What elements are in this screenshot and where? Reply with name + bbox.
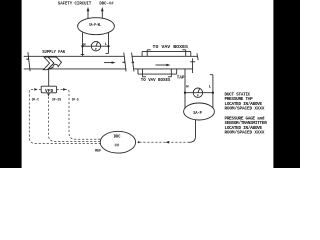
duct break line right end: [197, 53, 198, 60]
duct branch to VAV boxes (bottom): [138, 69, 177, 77]
airflow arrow 1: [104, 61, 116, 63]
wire: SA-P low reference line: [210, 75, 213, 109]
svg-text:SA-P-HL: SA-P-HL: [89, 24, 101, 28]
gauge P (SA-P-HL): [91, 42, 100, 52]
svg-text:ROOM/SPACED XXXX: ROOM/SPACED XXXX: [225, 106, 265, 111]
wire SF-C (DDC to VFD command): [29, 88, 101, 143]
wire SF-SS (start/stop): [47, 93, 100, 141]
svg-text:ROOM/SPACED XXXX: ROOM/SPACED XXXX: [225, 131, 265, 136]
svg-text:SUPPLY FAN: SUPPLY FAN: [42, 50, 65, 55]
svg-text:SA-P: SA-P: [193, 112, 202, 116]
svg-text:SF-C: SF-C: [32, 99, 40, 103]
junction dot H (SA-P): [184, 92, 186, 94]
static pressure tap probe: [190, 58, 195, 73]
svg-text:REF: REF: [95, 149, 102, 153]
svg-text:SF-S: SF-S: [72, 99, 79, 103]
wire: SA-P sensing connector: [185, 92, 213, 94]
wire: arrow from SA-P-HL to DDC: [101, 7, 104, 18]
wire: arrow from SA-P-HL to safety circuit: [87, 7, 90, 19]
svg-text:P: P: [95, 48, 97, 51]
wire: SA-P-HL sensing connector: [83, 45, 109, 47]
gauge P (SA-P): [193, 88, 202, 98]
duct: supply duct bottom line: [24, 68, 193, 70]
svg-text:SF-SS: SF-SS: [52, 99, 62, 103]
wire: SA-P signal to DDC: [138, 120, 196, 144]
VFD drive: [41, 86, 56, 94]
svg-text:DDC: DDC: [114, 136, 121, 140]
duct branch to VAV boxes (top): [142, 50, 191, 57]
wire SF-S (status): [57, 88, 101, 139]
svg-text:TO VAV BOXES: TO VAV BOXES: [153, 44, 189, 50]
wire: fan to VFD: [48, 69, 50, 86]
junction dot L (SA-P): [212, 92, 214, 94]
svg-text:P: P: [197, 95, 199, 98]
airflow arrow 2: [156, 64, 171, 66]
svg-text:TO VAV BOXES: TO VAV BOXES: [141, 78, 171, 83]
wire: SA-P-HL low reference line: [106, 32, 109, 53]
svg-text:VFD: VFD: [45, 89, 54, 94]
junction dot H (SA-P-HL): [81, 45, 83, 47]
wire: SA-P high tap line: [184, 69, 186, 108]
svg-text:DDC-##: DDC-##: [99, 1, 113, 7]
note: duct static pressure tap: [225, 92, 265, 111]
svg-text:SAFETY CIRCUIT: SAFETY CIRCUIT: [58, 1, 92, 7]
duct break lines middle: [122, 53, 134, 72]
duct: supply duct top line: [24, 55, 198, 57]
controller DDC: [100, 131, 135, 153]
duct break line left end: [25, 52, 30, 71]
svg-text:TAP: TAP: [177, 75, 185, 80]
supply fan symbol: [43, 57, 61, 70]
sensor SA-P: [184, 103, 215, 120]
wire: SA-P-HL high tap line: [81, 33, 85, 57]
switch SA-P-HL (high limit): [78, 18, 115, 35]
note: pressure gage and sensor: [225, 117, 268, 136]
junction dot L (SA-P-HL): [107, 45, 109, 47]
svg-text:##: ##: [114, 145, 119, 149]
